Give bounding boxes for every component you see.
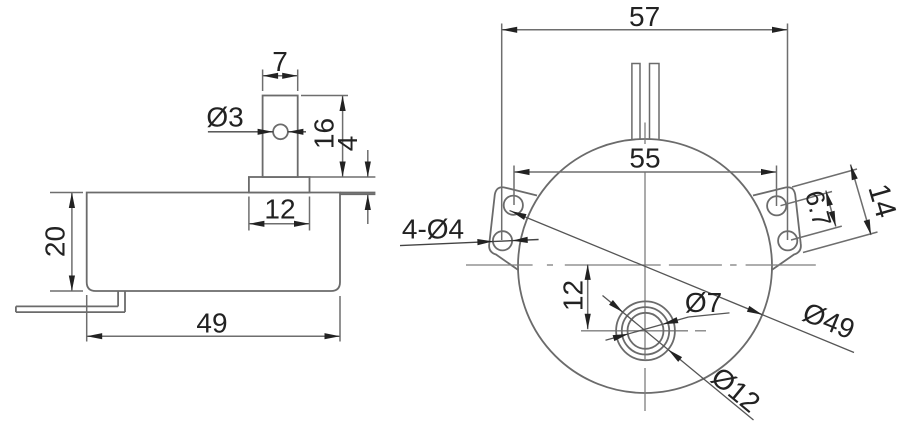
ear hole bottom-left O4	[493, 231, 512, 250]
svg-text:4: 4	[332, 136, 363, 152]
horizontal centerline	[466, 264, 533, 266]
diameter line O49	[510, 211, 855, 353]
svg-text:4-Ø4: 4-Ø4	[402, 213, 464, 244]
ear hole bottom-right O4	[778, 231, 797, 250]
dimension 16 shaft height	[301, 95, 348, 97]
dimension 14 ear length	[792, 169, 857, 187]
left mounting ear outline	[489, 187, 537, 270]
lead wire side view	[16, 305, 118, 307]
right mounting ear outline	[753, 187, 801, 270]
svg-text:55: 55	[629, 142, 660, 173]
dimension 4 flange thickness	[367, 150, 369, 177]
svg-text:Ø7: Ø7	[685, 287, 722, 318]
dimension 49 body length	[86, 295, 88, 342]
svg-text:49: 49	[196, 307, 227, 338]
flange mounting plate side view	[249, 177, 310, 193]
leader O3	[208, 131, 273, 133]
motor body front view circle O49	[518, 139, 772, 393]
dimension 7 shaft width	[262, 70, 264, 92]
dimension 57 overall width	[501, 24, 503, 241]
mounting plate tab edge-on right	[340, 192, 375, 194]
vertical centerline	[644, 123, 646, 145]
label O7 shelf	[689, 313, 730, 317]
motor body side view	[87, 193, 340, 292]
ear hole top-right O4	[767, 196, 786, 215]
hub middle circle	[622, 307, 669, 354]
dimension 55 hole spacing	[513, 166, 515, 206]
svg-text:12: 12	[557, 280, 588, 311]
diameter line O7	[606, 317, 689, 340]
shaft side view	[263, 96, 298, 178]
dimension 20 body height	[50, 192, 83, 194]
svg-text:Ø49: Ø49	[798, 296, 859, 345]
shaft hole O3	[273, 124, 288, 139]
dimension 12 hub offset	[587, 264, 589, 329]
dimension 6.7 ear hole spacing	[781, 192, 833, 206]
leader 4-O4 mounting holes	[400, 240, 539, 246]
lead wire left front view	[632, 64, 640, 144]
svg-text:6.7: 6.7	[799, 187, 838, 230]
hub inner circle O7	[628, 313, 664, 349]
diameter line O12	[603, 296, 754, 421]
svg-text:Ø3: Ø3	[206, 101, 243, 132]
svg-text:12: 12	[264, 193, 295, 224]
svg-text:7: 7	[272, 46, 288, 77]
svg-text:57: 57	[629, 1, 660, 32]
dimension 12 flange width	[248, 197, 250, 231]
hub horizontal centerline	[581, 330, 688, 332]
flange top extension line	[310, 176, 376, 178]
lead wire right front view	[650, 64, 660, 144]
ear hole top-left O4	[504, 196, 523, 215]
hub outer circle O12	[616, 301, 675, 360]
svg-text:20: 20	[39, 226, 70, 257]
svg-text:14: 14	[861, 180, 902, 221]
